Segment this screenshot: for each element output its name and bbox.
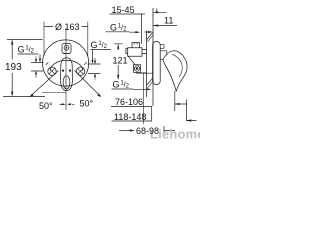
front view cap lower marks bbox=[64, 53, 70, 55]
front view 50 degree left line bbox=[30, 71, 58, 97]
front view dome arc bbox=[50, 60, 82, 71]
front view lever handle outline bbox=[61, 58, 73, 91]
front view center vertical line bbox=[65, 28, 67, 110]
front view cap center dot bbox=[66, 47, 68, 49]
svg-text:15-45: 15-45 bbox=[112, 5, 135, 15]
dimension 76-106 shelf bbox=[111, 106, 152, 121]
side view body block bbox=[128, 48, 142, 65]
front view escutcheon circle bbox=[43, 40, 89, 86]
side view body lower line bbox=[136, 72, 153, 74]
front view left inlet mini-dim arrows bbox=[35, 57, 37, 78]
side view body left tab bbox=[126, 49, 128, 54]
front view lever pivot dots bbox=[62, 70, 64, 72]
side view wall hatch bottom bbox=[147, 78, 153, 88]
svg-text:50°: 50° bbox=[39, 101, 53, 111]
side view wall line rough bbox=[146, 31, 148, 98]
G1/2 right label leader arrow bbox=[91, 50, 112, 62]
dimension 68-98 right tick and line bbox=[164, 126, 175, 135]
svg-text:76-106: 76-106 bbox=[115, 97, 143, 107]
front view right hatched screw circle bbox=[76, 62, 86, 75]
side view outlet circle bbox=[134, 66, 139, 71]
dimension Ø163 ticks and line bbox=[44, 22, 88, 58]
svg-text:193: 193 bbox=[5, 62, 22, 73]
dimension 193 extension lines bbox=[3, 40, 45, 97]
dimension 118-148 shelf bbox=[112, 120, 152, 122]
side view body top fitting bbox=[132, 43, 140, 48]
side view body right pipe bbox=[142, 50, 147, 54]
svg-text:121: 121 bbox=[113, 56, 128, 66]
side view wall line finished bbox=[152, 8, 154, 106]
side view body outlet square bbox=[134, 65, 141, 73]
side view lever inner line bbox=[172, 54, 182, 77]
dimension 68-98 centre extension bbox=[143, 74, 145, 125]
front view handle bottom reference line bbox=[42, 92, 66, 94]
svg-text:Ø 163: Ø 163 bbox=[55, 22, 80, 32]
front view lever inner oval bbox=[63, 76, 70, 89]
dimension 68-98 line left with arrow bbox=[119, 130, 130, 132]
svg-text:11: 11 bbox=[164, 16, 173, 26]
dimension 121 bbox=[114, 44, 123, 80]
dimension 11 shelf bbox=[153, 25, 177, 27]
side view stem bbox=[160, 45, 167, 60]
front view right inlet mini-dim arrows bbox=[94, 58, 96, 80]
dimension 193 line and arrows bbox=[11, 40, 13, 96]
G1/2 bottom middle label leader arrow bbox=[112, 88, 147, 90]
dimension 15-45 arrows bbox=[148, 31, 153, 33]
front view cap inner circle bbox=[64, 45, 69, 50]
G1/2 left label leader arrow bbox=[18, 54, 41, 61]
front view 50 degree right line bbox=[75, 71, 101, 97]
front view left hatched screw circle bbox=[46, 62, 56, 75]
side view escutcheon bbox=[153, 42, 161, 85]
dimension 118-148 right bracket bbox=[187, 100, 197, 122]
side view lever handle bbox=[163, 51, 187, 91]
dimension 11 top arrow bbox=[153, 9, 166, 13]
dimension 15-45 shelf bbox=[110, 14, 146, 44]
svg-text:68-98: 68-98 bbox=[136, 126, 159, 136]
front view right inlet stub lines bbox=[88, 64, 101, 74]
front view centerline flanking arrows bbox=[60, 103, 75, 105]
dimension 76-106 right bracket bbox=[175, 91, 187, 111]
G1/2 top middle label leader bbox=[106, 31, 136, 33]
front view left inlet stub lines bbox=[31, 63, 44, 72]
svg-text:118-148: 118-148 bbox=[114, 112, 146, 122]
side view wall hatch top bbox=[147, 33, 153, 42]
front view cap rounded rect bbox=[62, 43, 71, 53]
svg-text:50°: 50° bbox=[80, 99, 94, 109]
